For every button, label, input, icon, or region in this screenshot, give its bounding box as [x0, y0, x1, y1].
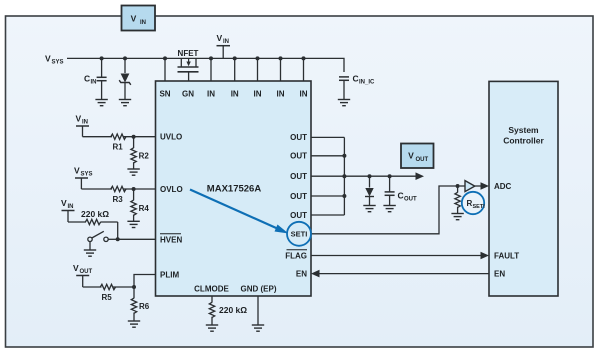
svg-text:HVEN: HVEN: [160, 235, 182, 244]
svg-text:V: V: [131, 14, 137, 24]
ground below TVS diode: [119, 100, 131, 106]
svg-text:OUT: OUT: [290, 172, 307, 181]
wire IN1 stub: [210, 58, 212, 81]
wire VSYS input bus: [67, 58, 344, 72]
ground below CIN_IC: [338, 100, 350, 106]
wire OUT1 stub: [311, 136, 344, 138]
svg-text:OUT: OUT: [80, 269, 93, 275]
svg-text:V: V: [217, 33, 223, 43]
TVS diode D1: [119, 58, 131, 99]
wire OUT5 stub: [311, 214, 344, 216]
svg-text:MAX17526A: MAX17526A: [207, 184, 262, 195]
svg-text:220 kΩ: 220 kΩ: [81, 209, 109, 219]
svg-text:IN: IN: [140, 20, 146, 26]
wire IN4 stub: [280, 58, 282, 81]
junction at IN2: [233, 56, 237, 60]
node VIN supply box (top): [122, 6, 156, 31]
svg-text:OUT: OUT: [290, 152, 307, 161]
svg-text:IN: IN: [82, 120, 88, 126]
svg-text:SETI: SETI: [473, 204, 486, 210]
svg-text:V: V: [74, 165, 80, 175]
junction at COUT: [388, 174, 392, 178]
wire OUT3 stub: [311, 175, 344, 177]
capacitor CIN_IC: [339, 74, 375, 100]
svg-text:FLAG: FLAG: [285, 251, 307, 260]
wire HVEN row to chip: [118, 238, 156, 240]
resistor RSETI: [455, 186, 460, 214]
svg-text:V: V: [408, 151, 414, 161]
svg-text:CLMODE: CLMODE: [194, 285, 229, 294]
svg-text:ADC: ADC: [494, 182, 512, 191]
switch S1: [88, 231, 118, 250]
wire OVLO row: [81, 188, 155, 190]
junction at CIN: [100, 56, 104, 60]
svg-text:IN: IN: [254, 90, 262, 99]
svg-text:OUT: OUT: [290, 211, 307, 220]
ground below R2: [127, 169, 139, 175]
wire IN3 stub: [257, 58, 259, 81]
junction RSETI node: [456, 184, 460, 188]
junction at IN5: [302, 56, 306, 60]
svg-text:GND (EP): GND (EP): [241, 285, 277, 294]
svg-text:SYS: SYS: [52, 60, 64, 66]
svg-text:EN: EN: [296, 269, 307, 278]
node VIN rail for HVEN: [61, 198, 75, 222]
node VOUT supply box: [401, 144, 434, 169]
junction OUT3: [342, 174, 346, 178]
svg-text:C: C: [398, 191, 404, 201]
resistor R5: [100, 284, 115, 302]
node VIN rail for UVLO divider: [76, 113, 90, 136]
svg-text:V: V: [76, 113, 82, 123]
transistor NFET: [178, 49, 199, 81]
wire SN stub: [164, 58, 166, 81]
svg-text:IN: IN: [68, 204, 74, 210]
ground below COUT: [383, 206, 395, 212]
svg-text:EN: EN: [494, 269, 505, 278]
wire output line with arrow: [344, 172, 424, 180]
svg-text:220 kΩ: 220 kΩ: [219, 305, 247, 315]
junction OUT4: [342, 194, 346, 198]
svg-text:SETI: SETI: [291, 230, 308, 239]
svg-text:NFET: NFET: [178, 49, 199, 58]
junction HVEN: [116, 237, 120, 241]
wire PLIM divider row: [83, 286, 134, 288]
node VSYS rail for OVLO divider: [74, 165, 93, 189]
svg-text:C: C: [353, 74, 359, 84]
wire EN from controller with arrow: [311, 270, 489, 278]
System Controller box: [489, 81, 558, 296]
wire OUT2 stub: [311, 155, 344, 157]
junction OUT2: [342, 154, 346, 158]
svg-text:IN: IN: [223, 39, 229, 45]
svg-text:OUT: OUT: [290, 133, 307, 142]
svg-text:UVLO: UVLO: [160, 133, 182, 142]
ground below GND(EP): [252, 325, 264, 331]
wire OUT vertical bus: [343, 137, 345, 215]
wire buffer to ADC with arrow: [475, 182, 489, 190]
node VOUT rail for PLIM divider: [73, 263, 93, 287]
ground below CIN: [95, 100, 107, 106]
ground below CLMODE resistor: [206, 325, 218, 331]
ground below RSETI: [451, 214, 463, 220]
resistor 220k pull-up with value label: [68, 209, 118, 225]
resistor R4: [131, 189, 149, 221]
svg-text:V: V: [73, 263, 79, 273]
op-amp buffer to ADC: [460, 181, 475, 192]
diode D2 output clamp: [365, 176, 374, 205]
wire IN5 stub: [303, 58, 305, 81]
svg-text:FAULT: FAULT: [494, 251, 519, 260]
node VSYS label: [45, 54, 64, 66]
svg-text:R1: R1: [113, 143, 124, 152]
capacitor COUT: [385, 176, 417, 205]
wire down to HVEN row: [117, 222, 119, 239]
resistor R3: [111, 186, 126, 204]
svg-text:SN: SN: [159, 90, 170, 99]
ground below switch: [84, 250, 96, 256]
svg-text:R4: R4: [139, 204, 150, 213]
svg-text:PLIM: PLIM: [160, 271, 179, 280]
wire GND(EP) to ground: [257, 296, 259, 325]
wire UVLO row: [83, 136, 156, 138]
resistor R6: [131, 287, 149, 321]
svg-text:IN: IN: [91, 80, 97, 86]
wire FLAG to FAULT with arrow: [311, 252, 489, 260]
svg-text:IN: IN: [207, 90, 215, 99]
svg-text:C: C: [84, 74, 90, 84]
svg-text:GN: GN: [182, 90, 194, 99]
ground below R4: [127, 221, 139, 227]
pin FLAG (active low): [285, 250, 307, 261]
svg-text:R6: R6: [139, 302, 150, 311]
junction OVLO divider: [132, 187, 136, 191]
svg-text:R5: R5: [102, 293, 113, 302]
ground below R6: [128, 321, 140, 327]
junction at TVS diode: [123, 56, 127, 60]
node VIN rail above IN pins: [217, 33, 231, 58]
svg-text:OUT: OUT: [416, 157, 429, 163]
svg-text:Controller: Controller: [503, 136, 544, 146]
junction at IN3: [256, 56, 260, 60]
svg-text:V: V: [45, 54, 51, 64]
junction at SN: [163, 56, 167, 60]
svg-text:OUT: OUT: [290, 192, 307, 201]
svg-text:R3: R3: [113, 195, 124, 204]
svg-text:IN: IN: [277, 90, 285, 99]
svg-text:V: V: [61, 198, 67, 208]
svg-text:System: System: [508, 125, 539, 135]
svg-text:SYS: SYS: [81, 172, 93, 178]
resistor R2: [131, 137, 149, 169]
junction UVLO divider: [132, 135, 136, 139]
junction at output diode: [368, 174, 372, 178]
svg-text:IN: IN: [231, 90, 239, 99]
resistor R1: [111, 134, 126, 152]
op-amp U1 MAX17526A body: [156, 81, 312, 296]
wire CLMODE pulldown with 220k: [209, 296, 247, 325]
svg-text:IN_IC: IN_IC: [359, 80, 375, 86]
wire up to PLIM pin: [134, 275, 156, 288]
wire SETI to RSETI node: [311, 186, 458, 234]
blue callout arrow OVLO to SETI: [190, 190, 280, 230]
svg-text:IN: IN: [300, 90, 308, 99]
junction at IN4: [279, 56, 283, 60]
junction at IN1: [209, 56, 213, 60]
label RSETI circled (blue): [462, 192, 485, 214]
wire IN2 stub: [234, 58, 236, 81]
node SETI circled (blue): [287, 222, 311, 246]
ground below diode D2: [363, 206, 375, 212]
svg-text:OVLO: OVLO: [160, 185, 183, 194]
capacitor CIN: [84, 58, 107, 99]
svg-text:R2: R2: [139, 152, 150, 161]
junction PLIM divider: [132, 285, 136, 289]
svg-text:OUT: OUT: [404, 197, 417, 203]
wire OUT4 stub: [311, 195, 344, 197]
pin HVEN (active low): [160, 234, 182, 245]
